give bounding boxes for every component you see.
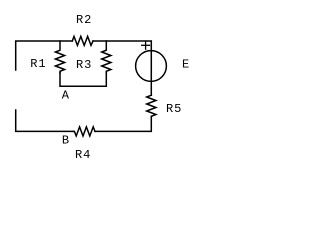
wire source bottom to corner [95,117,151,131]
node A bracket wire [60,73,106,87]
svg-text:A: A [62,89,70,103]
resistor R2 [72,36,93,45]
svg-text:R5: R5 [166,102,182,116]
svg-text:R3: R3 [76,58,92,72]
wire bottom-left with open terminal [16,110,73,131]
svg-text:R1: R1 [30,57,46,71]
wire top-left with open terminal [16,41,73,70]
resistor R3 [102,41,111,73]
svg-text:R2: R2 [76,13,92,27]
svg-text:B: B [62,134,70,148]
plus sign [142,44,150,46]
wire through source [150,51,152,95]
resistor R1 [55,41,64,73]
svg-text:R4: R4 [75,148,91,162]
resistor R5 [147,95,156,117]
wire top-right to source [93,41,151,51]
svg-text:E: E [182,58,190,72]
resistor R4 [73,127,95,136]
voltage source E circle [136,51,167,82]
